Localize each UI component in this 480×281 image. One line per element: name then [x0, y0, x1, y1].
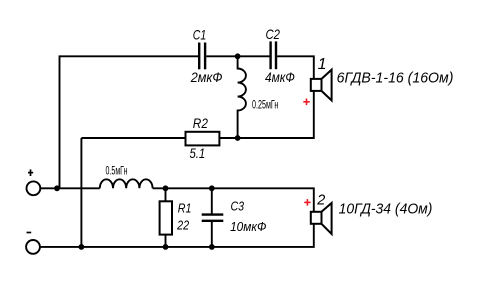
svg-text:5.1: 5.1	[190, 145, 206, 161]
svg-text:C2: C2	[266, 26, 281, 42]
input terminal +	[27, 181, 41, 195]
speaker BA2 frame	[311, 212, 322, 224]
plus sign input	[28, 169, 33, 176]
inductor L2 0.5мГн	[100, 179, 153, 188]
junction dot R1 top	[163, 185, 169, 191]
svg-text:C3: C3	[231, 199, 245, 214]
inductor L1 0.25мГн	[238, 56, 246, 138]
junction dot L1/R2	[235, 135, 241, 141]
polarity + speaker 1	[303, 99, 310, 106]
svg-text:22: 22	[176, 218, 189, 233]
minus sign input	[27, 232, 32, 234]
input terminal -	[26, 240, 40, 254]
svg-text:6ГДВ-1-16 (16Ом): 6ГДВ-1-16 (16Ом)	[337, 70, 454, 86]
wire R2 row left	[81, 137, 185, 139]
svg-text:R2: R2	[193, 115, 208, 131]
speaker BA2 cone	[322, 203, 332, 234]
speaker BA1 frame	[311, 79, 322, 91]
capacitor C2	[271, 41, 276, 69]
wire R2 to speaker 1 bottom	[219, 91, 313, 138]
junction dot + terminal	[54, 185, 60, 191]
junction dot C3 bottom	[209, 244, 215, 250]
resistor R1	[160, 188, 172, 247]
svg-text:0.5мГн: 0.5мГн	[106, 163, 128, 177]
svg-text:4мкФ: 4мкФ	[265, 69, 295, 85]
wire C1 to node A	[206, 55, 269, 57]
resistor R2	[186, 132, 220, 146]
svg-text:10ГД-34 (4Ом): 10ГД-34 (4Ом)	[339, 201, 433, 217]
wire left branch down	[80, 138, 82, 247]
node A junction dot (C1/C2/L1)	[235, 53, 241, 59]
wire C2 to speaker 1	[277, 56, 314, 79]
junction dot R1 bottom	[163, 244, 169, 250]
wire top rail left segment	[60, 56, 199, 188]
svg-text:1: 1	[318, 56, 327, 73]
wire L2 to speaker 2	[153, 188, 314, 212]
svg-text:R1: R1	[178, 200, 192, 215]
svg-text:C1: C1	[193, 26, 207, 42]
wire plus terminal row	[40, 187, 100, 189]
svg-text:2мкФ: 2мкФ	[190, 69, 223, 85]
svg-text:0.25мГн: 0.25мГн	[252, 98, 278, 112]
svg-text:2: 2	[316, 192, 325, 208]
wire bottom rail	[40, 224, 314, 247]
capacitor C1	[199, 43, 205, 70]
polarity + speaker 2	[304, 199, 311, 206]
junction dot bottom left	[79, 244, 85, 250]
speaker BA1 cone	[322, 70, 332, 101]
capacitor C3	[202, 188, 224, 247]
junction dot C3 top	[209, 185, 215, 191]
svg-text:10мкФ: 10мкФ	[230, 219, 266, 234]
